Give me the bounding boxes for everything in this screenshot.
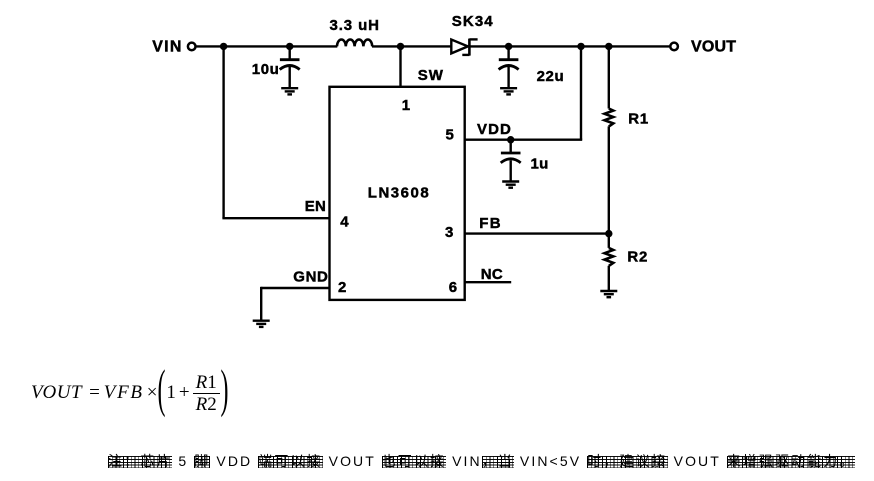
svg-text:22u: 22u [537, 68, 565, 85]
svg-text:10u: 10u [252, 61, 280, 78]
svg-text:5: 5 [446, 126, 454, 143]
label 22u [537, 68, 565, 85]
wire EN branch horizontal to pin 4 [222, 217, 329, 219]
ground at R2 [600, 291, 617, 297]
label R2 [627, 249, 648, 266]
terminal VIN [188, 43, 196, 51]
pin number 6 [449, 279, 457, 296]
svg-text:SW: SW [418, 67, 444, 84]
node junction at C3 [507, 136, 514, 143]
pin number 4 [340, 214, 349, 231]
label VOUT [691, 39, 736, 56]
svg-text:1: 1 [402, 97, 410, 114]
wire VDD rail horizontal to pin 5 [465, 138, 583, 140]
label 1u [531, 156, 549, 173]
label VIN [152, 39, 182, 56]
terminal VOUT [670, 43, 678, 51]
label 3.3uH [330, 17, 380, 34]
wire EN branch vertical [222, 46, 224, 218]
node junction at EN branch [220, 43, 227, 50]
svg-text:VDD: VDD [477, 121, 512, 138]
svg-text:R2: R2 [627, 249, 648, 266]
ground at C1 [281, 88, 298, 94]
node junction at VDD branch [577, 43, 584, 50]
node junction at SW branch [397, 43, 404, 50]
svg-text:FB: FB [479, 215, 502, 232]
pin number 2 [338, 279, 346, 296]
svg-text:3.3 uH: 3.3 uH [330, 17, 380, 34]
wire FB node to R2 [608, 234, 610, 248]
capacitor C1 10u [280, 46, 300, 87]
svg-text:EN: EN [305, 198, 326, 215]
IC U1 LN3608 body [330, 87, 465, 300]
label 10u [252, 61, 280, 78]
node junction FB divider [605, 230, 612, 237]
resistor R1 [605, 109, 614, 127]
svg-text:SK34: SK34 [452, 13, 494, 30]
ground at C2 [500, 88, 517, 94]
node junction at C2 [505, 43, 512, 50]
svg-text:NC: NC [481, 266, 503, 283]
wire inductor to diode anode [372, 45, 451, 47]
label SK34 [452, 13, 494, 30]
wire diode cathode to VOUT [469, 45, 670, 47]
svg-text:VIN: VIN [152, 39, 182, 56]
svg-text:R1: R1 [628, 110, 649, 127]
label FB [479, 215, 502, 232]
wire R1 to FB node [608, 126, 610, 233]
pin number 5 [446, 126, 454, 143]
svg-text:VOUT: VOUT [691, 39, 736, 56]
wire R2 to ground [608, 266, 610, 291]
capacitor C3 1u [501, 140, 521, 181]
wire FB pin 3 to divider [465, 232, 609, 234]
capacitor C2 22u [499, 46, 519, 87]
label GND [293, 268, 328, 285]
wire GND vertical [260, 287, 262, 320]
formula VOUT = VFB x (1 + R1/R2) [31, 367, 227, 419]
wire VOUT rail to R1 [608, 46, 610, 108]
ground at pin 2 [253, 321, 270, 327]
node junction at R1 branch [605, 43, 612, 50]
pin number 3 [445, 224, 453, 241]
label EN [305, 198, 326, 215]
svg-text:2: 2 [338, 279, 346, 296]
diode D1 SK34 schottky [451, 39, 477, 56]
svg-text:6: 6 [449, 279, 457, 296]
ground at C3 [502, 182, 519, 188]
svg-text:LN3608: LN3608 [368, 184, 430, 201]
wire NC pin 6 stub [465, 281, 512, 283]
label VDD [477, 121, 512, 138]
label SW [418, 67, 444, 84]
pin number 1 [402, 97, 410, 114]
label R1 [628, 110, 649, 127]
svg-text:1u: 1u [531, 156, 549, 173]
label NC [481, 266, 503, 283]
resistor R2 [605, 248, 614, 266]
label LN3608 [368, 184, 430, 201]
svg-text:GND: GND [293, 268, 328, 285]
svg-text:4: 4 [340, 214, 349, 231]
inductor L1 3.3uH [337, 39, 372, 46]
node junction at C1 [286, 43, 293, 50]
wire VIN to inductor [195, 45, 337, 47]
wire VDD rail vertical [580, 46, 582, 139]
wire SW branch [399, 46, 401, 86]
svg-text:3: 3 [445, 224, 453, 241]
wire GND pin 2 horizontal [261, 287, 329, 289]
note text [108, 451, 855, 471]
